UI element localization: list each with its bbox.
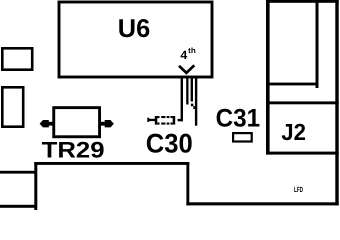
connector area left vertical line — [266, 0, 270, 155]
U6 pin 4 wire — [195, 77, 197, 126]
board right edge vertical — [335, 0, 338, 205]
capacitor C31 body — [233, 133, 252, 141]
bottom module left edge — [34, 162, 37, 210]
capacitor C30 body bottom dash 2 — [167, 123, 170, 125]
svg-text:J2: J2 — [281, 119, 306, 145]
connector pad right edge — [316, 0, 319, 88]
U6 pin 2 wire step 1 — [191, 104, 193, 107]
capacitor C30 body top dash 2 — [167, 116, 170, 118]
capacitor C30 dashed body left lead — [148, 119, 155, 121]
U6 pin 3 wire — [191, 77, 193, 102]
capacitor C30 body top dash 1 — [161, 116, 165, 118]
transistor TR29 body — [54, 108, 100, 137]
svg-text:th: th — [188, 46, 196, 55]
board edge left horizontal upper — [0, 171, 36, 174]
svg-text:TR29: TR29 — [42, 138, 105, 163]
left pad rectangle R2 — [2, 87, 23, 126]
connector J2 bottom edge — [266, 152, 339, 155]
connector area top edge — [266, 0, 339, 3]
svg-text:C30: C30 — [146, 129, 193, 159]
capacitor C30 lead end tick — [147, 118, 149, 122]
capacitor C30 body left bracket — [155, 116, 158, 125]
board edge left horizontal lower — [0, 205, 37, 208]
capacitor C30 body bottom dash 1 — [161, 123, 165, 125]
svg-text:U6: U6 — [118, 15, 150, 43]
arrowhead chevron pointing to pin 4 — [179, 65, 194, 73]
IC U6 — [59, 2, 212, 77]
U6 pin 1 wire — [181, 77, 183, 121]
left pad rectangle R1 — [2, 48, 32, 69]
svg-text:C31: C31 — [216, 104, 261, 132]
bottom module right edge — [186, 162, 189, 205]
capacitor C30 body right bracket — [173, 116, 176, 125]
bottom module top edge — [34, 162, 189, 165]
connector J2 top edge — [266, 101, 339, 104]
svg-text:LFD: LFD — [294, 185, 303, 194]
svg-text:4: 4 — [180, 48, 187, 62]
board edge bottom horizontal — [186, 202, 338, 205]
U6 pin 2 wire step 2 — [193, 106, 195, 109]
U6 pin 2 wire — [186, 77, 188, 105]
connector pad bottom edge — [266, 83, 319, 86]
transistor TR29 right lead arrow — [105, 120, 114, 127]
U6 pin 1 foot — [178, 119, 183, 121]
transistor TR29 left lead arrow — [40, 120, 49, 127]
